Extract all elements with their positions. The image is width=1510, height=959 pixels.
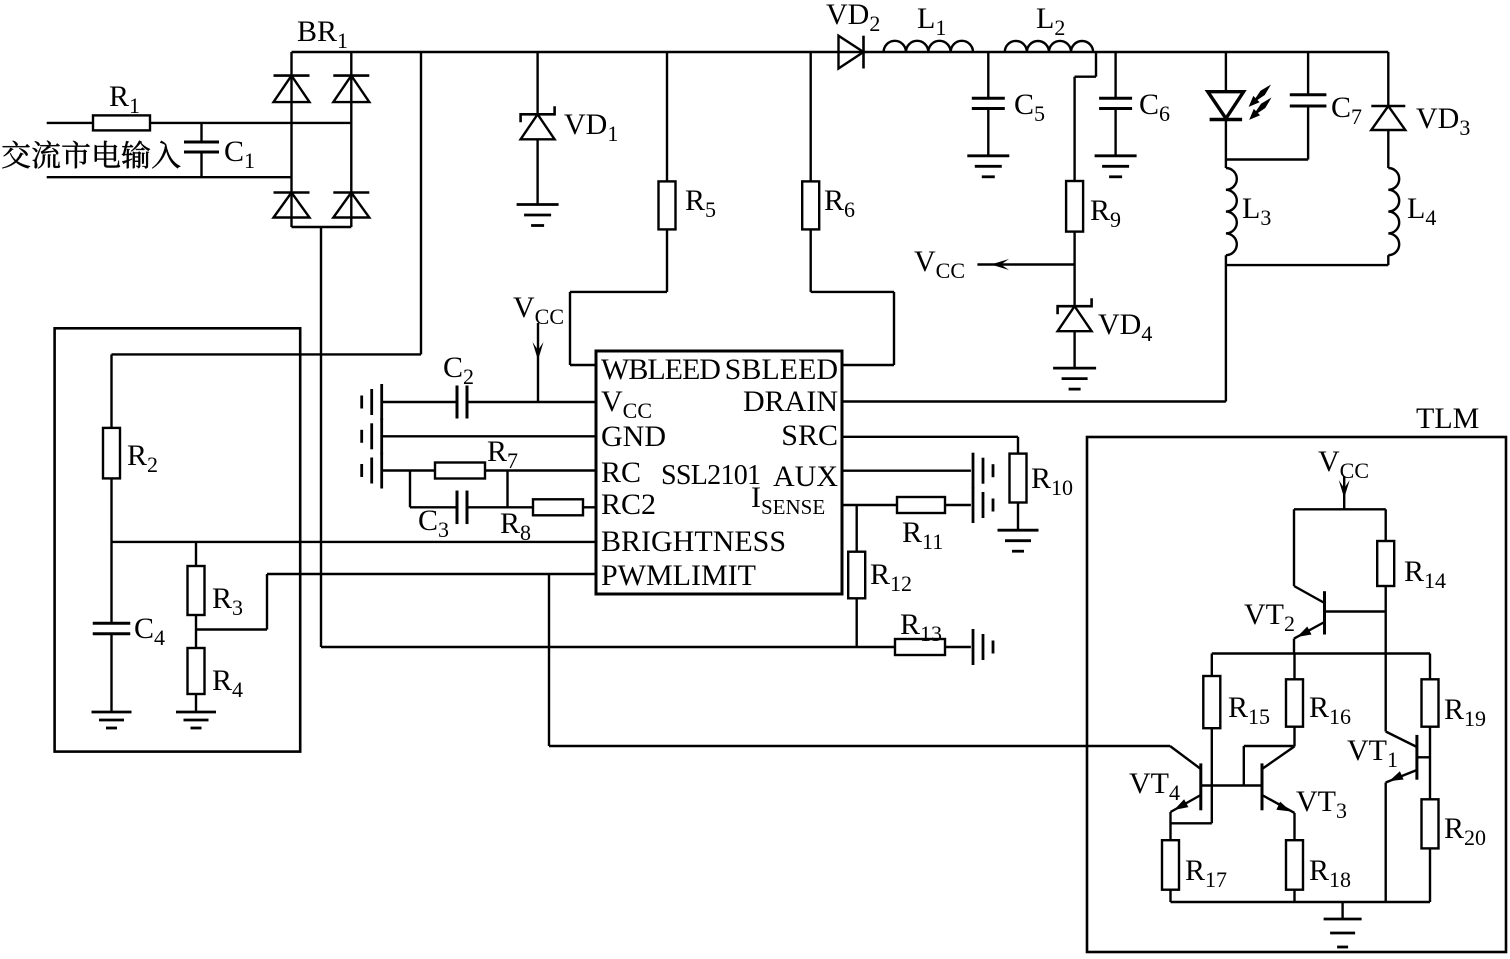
resistor R5	[659, 52, 676, 292]
op-amp U1 SSL2101 box	[596, 351, 842, 594]
wire PWMLIMIT to TLM	[549, 574, 1170, 746]
resistor R14	[1377, 509, 1394, 611]
label C7	[1331, 91, 1362, 129]
resistor R11	[897, 497, 945, 513]
label R1	[109, 80, 140, 118]
ground	[92, 712, 132, 728]
label R18	[1309, 854, 1351, 892]
label R8	[500, 507, 531, 545]
wire R2 feed horizontal	[112, 353, 422, 355]
inductor L1	[884, 41, 973, 52]
ground	[362, 384, 382, 420]
ground	[517, 205, 559, 226]
label R20	[1444, 812, 1486, 850]
diode BR1 top-right	[333, 76, 369, 103]
svg-text:RC2: RC2	[601, 488, 656, 521]
wire DRAIN	[842, 400, 1226, 402]
label R12	[870, 558, 912, 596]
label C5	[1014, 88, 1045, 126]
label L4	[1407, 192, 1436, 230]
label L2	[1036, 2, 1065, 40]
IC pin labels	[601, 353, 838, 592]
svg-text:SBLEED: SBLEED	[725, 353, 838, 386]
wire LED to C7	[1226, 158, 1308, 160]
resistor R4	[188, 630, 205, 713]
resistor R19	[1422, 654, 1439, 800]
resistor R2	[103, 354, 120, 542]
wire TLM mid rail	[1212, 652, 1430, 654]
transistor VT2	[1294, 509, 1386, 653]
label VD3	[1416, 102, 1470, 140]
LED light arrows	[1249, 85, 1272, 120]
node VCC tap	[977, 259, 1074, 270]
diode BR1 top-left	[274, 76, 310, 103]
label C2	[443, 351, 474, 389]
svg-text:BRIGHTNESS: BRIGHTNESS	[601, 525, 786, 558]
label TLM	[1416, 402, 1479, 435]
ground	[998, 530, 1039, 551]
resistor R10	[1010, 454, 1027, 531]
resistor R13	[895, 639, 971, 655]
label R16	[1309, 691, 1351, 729]
wire GND pin	[382, 435, 596, 437]
node VCC above IC	[513, 291, 564, 402]
ground	[973, 453, 993, 489]
svg-text:DRAIN: DRAIN	[743, 385, 838, 418]
wire RC2 pin	[410, 506, 596, 508]
wire top rail	[292, 51, 1389, 53]
wire RC pin	[382, 469, 596, 471]
zener diode VD4	[1058, 298, 1092, 368]
inductor L3	[1226, 168, 1237, 402]
svg-text:WBLEED: WBLEED	[601, 353, 720, 386]
diode VD3	[1371, 52, 1405, 168]
wire lower rail	[321, 646, 895, 648]
wire VT3 VT4 base tie	[1201, 746, 1295, 786]
diode VD2	[839, 36, 864, 69]
capacitor C7	[1290, 52, 1327, 160]
resistor R6	[802, 52, 819, 292]
capacitor C4	[93, 542, 131, 712]
left network box	[55, 328, 301, 751]
zener diode VD1	[521, 52, 555, 205]
resistor R20	[1422, 799, 1439, 902]
wire R15 to VT4 emitter	[1171, 822, 1212, 824]
ground	[967, 156, 1009, 177]
svg-text:PWMLIMIT: PWMLIMIT	[601, 559, 756, 592]
ground	[1053, 368, 1096, 389]
diode BR1 bottom-left	[274, 193, 310, 218]
label VD4	[1098, 308, 1152, 346]
ground	[973, 629, 993, 665]
wire SBLEED	[811, 292, 894, 365]
wire RC to RC2	[410, 471, 508, 508]
wire VCC pin	[382, 401, 596, 403]
label R10	[1031, 462, 1073, 500]
wire TLM top rail	[1294, 508, 1386, 510]
label R9	[1090, 194, 1121, 232]
label VD1	[564, 108, 618, 146]
wire TLM bottom rail	[1171, 901, 1431, 903]
transistor VT3	[1262, 746, 1295, 840]
ground	[1095, 156, 1137, 177]
AC mains input label 交流市电输入	[2, 141, 180, 169]
transistor VT4	[1170, 746, 1201, 840]
label C4	[134, 612, 165, 650]
svg-text:RC: RC	[601, 456, 641, 489]
transistor VT1	[1386, 732, 1430, 903]
capacitor C6	[1099, 52, 1132, 156]
wire SRC	[842, 437, 1018, 454]
ground	[176, 712, 216, 728]
resistor R17	[1162, 840, 1179, 902]
label C3	[418, 504, 449, 542]
ground	[973, 487, 993, 523]
label R5	[685, 184, 716, 222]
inductor L4	[1388, 168, 1399, 265]
label R13	[900, 608, 942, 646]
wire R2 feed vertical	[420, 52, 422, 354]
label R14	[1404, 555, 1446, 593]
resistor R12	[848, 505, 865, 647]
resistor R8	[533, 499, 583, 515]
label R4	[212, 664, 243, 702]
wire L3 L4 bottoms	[1226, 264, 1388, 266]
LED	[1208, 52, 1244, 168]
label R7	[487, 435, 518, 473]
label R19	[1444, 693, 1486, 731]
resistor R15	[1203, 654, 1220, 824]
wire AUX	[842, 470, 971, 472]
resistor R16	[1286, 654, 1303, 747]
ground	[1324, 902, 1362, 947]
label VT1	[1347, 734, 1398, 772]
svg-text:GND: GND	[601, 420, 666, 453]
resistor R18	[1286, 840, 1303, 902]
resistor R9	[1066, 181, 1083, 306]
bridge rectifier BR1 frame	[292, 52, 352, 227]
label L3	[1242, 192, 1271, 230]
label BR1	[297, 15, 348, 53]
label VT4	[1129, 767, 1180, 805]
label VD2	[826, 0, 880, 36]
wire BRIGHTNESS	[112, 541, 597, 543]
capacitor C5	[972, 52, 1005, 156]
label R2	[127, 439, 158, 477]
label R11	[902, 516, 943, 554]
capacitor C1	[184, 123, 219, 177]
resistor R7	[435, 463, 485, 479]
label VCC tap	[914, 245, 965, 283]
wire AC line bottom	[47, 176, 292, 178]
wire BR1 negative output	[320, 227, 322, 647]
capacitor C3	[457, 491, 467, 525]
resistor R3	[188, 542, 205, 630]
wire AC line top	[47, 122, 352, 124]
svg-text:SRC: SRC	[781, 419, 838, 452]
label C6	[1139, 88, 1170, 126]
label R3	[212, 582, 243, 620]
label C1	[224, 135, 255, 173]
node VCC in TLM	[1318, 445, 1369, 509]
wire WBLEED	[570, 292, 667, 365]
label VT3	[1296, 785, 1347, 823]
TLM module box	[1087, 437, 1506, 952]
ground	[362, 453, 382, 489]
inductor L2	[1005, 41, 1093, 52]
svg-text:TLM: TLM	[1416, 402, 1479, 435]
wire VT1 collector riser	[1384, 612, 1386, 732]
label L1	[917, 2, 946, 40]
diode BR1 bottom-right	[333, 193, 369, 218]
label R6	[824, 184, 855, 222]
svg-text:AUX: AUX	[773, 460, 838, 493]
label VT2	[1244, 598, 1295, 636]
wire ISENSE	[842, 504, 971, 506]
capacitor C2	[457, 386, 467, 419]
label R15	[1228, 691, 1270, 729]
wire R9 jog	[1075, 52, 1096, 181]
ground	[362, 418, 382, 454]
resistor R1	[93, 115, 150, 130]
svg-text:SSL2101: SSL2101	[661, 460, 760, 491]
wire PWMLIMIT	[196, 574, 596, 630]
label R17	[1185, 854, 1227, 892]
